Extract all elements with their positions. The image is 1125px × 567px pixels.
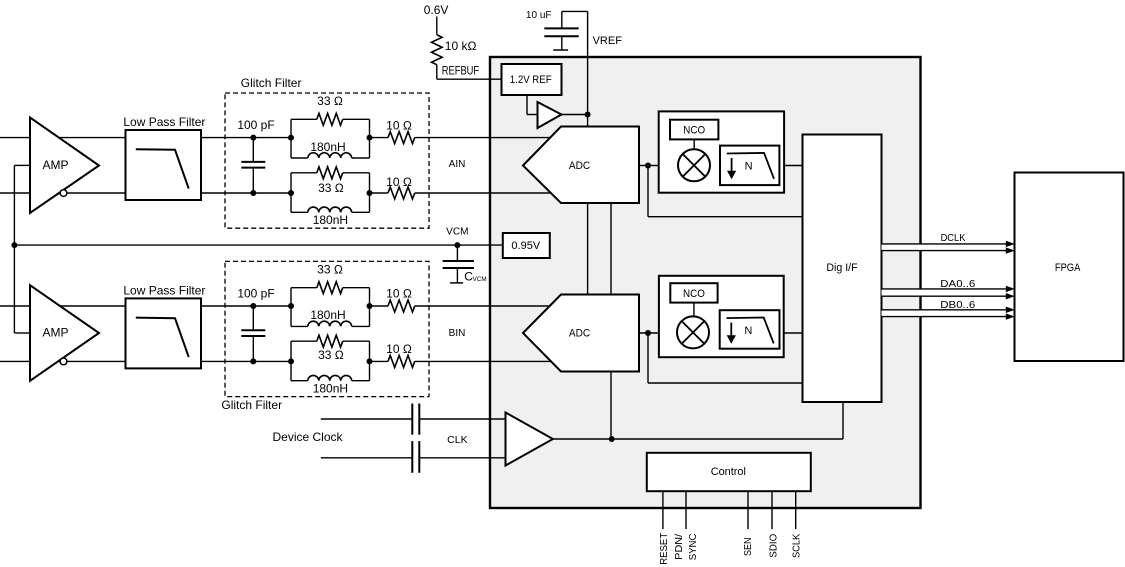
wire NCO to mixer (channel A) — [693, 139, 695, 149]
svg-text:RESET: RESET — [659, 533, 670, 565]
clock buffer — [506, 413, 553, 466]
wire VREF top — [562, 11, 588, 126]
wire DDC B to Dig I/F — [784, 332, 803, 334]
svg-text:33 Ω: 33 Ω — [318, 348, 344, 362]
svg-text:180nH: 180nH — [310, 308, 345, 322]
junction RL B plus right — [367, 303, 373, 309]
inversion bubble on AMP A output — [60, 190, 67, 197]
junction ADC A output — [645, 163, 651, 169]
svg-text:10 kΩ: 10 kΩ — [445, 39, 477, 53]
resistor 33 Ohm (channel A plus) — [317, 94, 343, 125]
wire clock riser to ADC B — [610, 372, 612, 440]
svg-text:180nH: 180nH — [313, 213, 348, 227]
svg-text:VCM: VCM — [473, 276, 487, 283]
inductor 180nH (channel B minus) — [308, 375, 352, 395]
wire clock riser to ADC A — [610, 203, 612, 295]
svg-text:1.2V REF: 1.2V REF — [510, 74, 552, 86]
svg-text:NCO: NCO — [683, 125, 705, 137]
svg-text:100 pF: 100 pF — [237, 118, 274, 132]
svg-text:0.95V: 0.95V — [511, 240, 540, 252]
RL network loop (channel B minus) — [291, 341, 370, 381]
svg-text:AMP: AMP — [42, 158, 68, 172]
svg-text:100 pF: 100 pF — [237, 286, 274, 300]
resistor 10 Ohm (channel B minus) — [386, 342, 415, 367]
svg-text:10 Ω: 10 Ω — [386, 119, 412, 133]
NCO box (channel A) — [670, 120, 718, 140]
DDC block (channel B) — [659, 276, 784, 357]
bus DB0..6 to FPGA — [882, 299, 1015, 320]
wire clock buffer output — [553, 402, 843, 439]
svg-text:Dig I/F: Dig I/F — [826, 262, 857, 274]
capacitor Cvcm — [443, 245, 487, 284]
NCO box (channel B) — [670, 283, 717, 302]
resistor 33 Ohm (channel B plus) — [317, 263, 343, 294]
svg-text:0.6V: 0.6V — [424, 3, 449, 17]
bus DA0..6 to FPGA — [882, 278, 1015, 300]
wire ADC A to Dig I/F direct — [648, 166, 803, 217]
svg-text:BIN: BIN — [449, 328, 466, 339]
glitch filter dashed boundary (channel B) — [225, 261, 429, 396]
junction RL A minus left — [288, 190, 294, 196]
capacitor 100 pF (channel B) — [237, 286, 274, 361]
buffer amp for VREF — [538, 102, 562, 128]
svg-text:VCM: VCM — [446, 226, 468, 237]
svg-text:ADC: ADC — [569, 160, 590, 172]
wire buffer to VREF node — [562, 114, 588, 116]
block Control — [647, 453, 811, 491]
capacitor 100 pF (channel A) — [237, 118, 274, 193]
svg-text:Glitch Filter: Glitch Filter — [221, 398, 282, 412]
wire LPF B to glitch filter — [201, 306, 291, 361]
junction VREF node — [585, 112, 591, 118]
junction 100pF B bottom — [250, 358, 256, 364]
wire 1.2V REF to buffer — [527, 95, 538, 115]
wire VCM net — [14, 165, 502, 333]
control pin SDIO — [771, 491, 773, 529]
resistor 33 Ohm (channel A minus) — [317, 167, 344, 195]
junction RL A minus right — [367, 190, 373, 196]
svg-text:SEN: SEN — [743, 538, 754, 557]
junction RL A plus right — [367, 135, 373, 141]
svg-text:REFBUF: REFBUF — [442, 64, 479, 78]
svg-text:10 uF: 10 uF — [526, 10, 552, 21]
wire ADC B to Dig I/F direct — [648, 333, 803, 383]
wire to ADC BINM — [415, 360, 552, 362]
svg-text:180nH: 180nH — [310, 140, 345, 154]
junction VCM at Cvcm — [454, 242, 460, 248]
mixer (channel A) — [678, 149, 710, 181]
svg-text:PDN/: PDN/ — [674, 534, 685, 560]
svg-text:N: N — [745, 161, 753, 173]
wire to ADC BINP — [415, 305, 552, 307]
wire clock minus to buffer — [419, 457, 510, 459]
svg-text:10 Ω: 10 Ω — [386, 342, 412, 356]
coupling capacitor clock plus — [412, 404, 419, 435]
inversion bubble on AMP B output — [60, 358, 67, 365]
op-amp AMP (channel B) — [30, 285, 99, 381]
pin label PDN/SYNC — [674, 534, 699, 561]
control pin RESET — [662, 491, 664, 529]
wire BINP amp input/output to LPF — [0, 306, 126, 361]
svg-text:AIN: AIN — [449, 159, 466, 170]
wire RL B minus to series resistor — [370, 360, 389, 362]
resistor 10 Ohm (channel A plus) — [386, 119, 415, 144]
wire RL A plus to series resistor — [370, 137, 389, 139]
block 1.2V REF — [502, 64, 562, 95]
svg-text:Low Pass Filter: Low Pass Filter — [123, 115, 205, 129]
svg-text:SCLK: SCLK — [792, 533, 803, 558]
RL network loop (channel A minus) — [291, 173, 370, 213]
wire 0.6V to resistor — [436, 17, 438, 35]
resistor 33 Ohm (channel B minus) — [317, 335, 344, 362]
ADC converter (channel A) — [523, 127, 639, 204]
junction ADC B output — [645, 330, 651, 336]
control pin PDN/SYNC — [685, 491, 687, 529]
inductor 180nH (channel A minus) — [308, 207, 352, 227]
resistor 10 kOhm — [431, 35, 476, 65]
svg-text:10 Ω: 10 Ω — [386, 287, 412, 301]
wire AINP amp input/output to LPF — [0, 138, 126, 193]
svg-text:Low Pass Filter: Low Pass Filter — [123, 284, 205, 298]
glitch filter dashed boundary (channel A) — [225, 93, 429, 228]
wire clock plus to buffer — [419, 418, 510, 420]
wire ADC B output — [639, 332, 659, 334]
svg-text:DB0..6: DB0..6 — [940, 299, 975, 311]
junction RL A plus left — [288, 135, 294, 141]
svg-text:NCO: NCO — [683, 288, 705, 300]
DDC block (channel A) — [659, 111, 784, 192]
wire device clock plus — [321, 418, 413, 420]
junction 100pF top — [250, 135, 256, 141]
inductor 180nH (channel B plus) — [308, 308, 352, 327]
RL network loop (channel A plus) — [291, 119, 370, 158]
block FPGA — [1015, 173, 1124, 362]
wire DDC A to Dig I/F — [784, 165, 802, 167]
wire ADC A output — [639, 165, 659, 167]
svg-text:10 Ω: 10 Ω — [386, 175, 412, 189]
mixer (channel B) — [677, 316, 709, 348]
svg-text:Glitch Filter: Glitch Filter — [241, 76, 302, 90]
junction VCM at amp feed — [11, 242, 17, 248]
coupling capacitor clock minus — [412, 441, 419, 473]
svg-text:SYNC: SYNC — [688, 534, 699, 561]
low pass filter block (channel B) — [123, 284, 205, 369]
control pin SCLK — [795, 491, 797, 529]
svg-text:VREF: VREF — [593, 35, 623, 47]
svg-text:SDIO: SDIO — [768, 534, 779, 558]
RL network loop (channel B plus) — [291, 288, 370, 327]
svg-text:AMP: AMP — [42, 325, 68, 339]
ADC chip body — [490, 57, 921, 508]
junction RL B plus left — [288, 303, 294, 309]
decimation filter (channel A) — [720, 146, 779, 186]
wire device clock minus — [321, 457, 413, 459]
junction clock distribution — [609, 436, 615, 442]
resistor 10 Ohm (channel A minus) — [386, 175, 415, 199]
wire to ADC AINM — [415, 192, 552, 194]
svg-text:CLK: CLK — [447, 434, 467, 446]
wire RL B plus to series resistor — [370, 305, 389, 307]
junction RL B minus left — [288, 358, 294, 364]
decimation filter (channel B) — [720, 310, 780, 349]
capacitor 10 uF — [526, 10, 579, 50]
wire to ADC AINP — [415, 137, 552, 139]
bus DCLK to FPGA — [882, 232, 1015, 254]
svg-text:N: N — [744, 325, 752, 337]
wire RL A minus to series resistor — [370, 192, 389, 194]
svg-text:33 Ω: 33 Ω — [317, 94, 343, 108]
svg-text:180nH: 180nH — [313, 382, 348, 396]
wire REFBUF to chip — [437, 65, 502, 80]
svg-text:DA0..6: DA0..6 — [940, 278, 975, 290]
op-amp AMP (channel A) — [30, 118, 99, 214]
wire NCO to mixer (channel B) — [693, 303, 695, 317]
block 0.95V — [503, 233, 550, 258]
junction 100pF bottom — [250, 190, 256, 196]
svg-text:ADC: ADC — [569, 327, 590, 339]
wire VREF between ADCs — [587, 203, 589, 295]
resistor 10 Ohm (channel B plus) — [386, 287, 415, 313]
svg-text:33 Ω: 33 Ω — [318, 181, 344, 195]
wire LPF A to glitch filter — [201, 138, 291, 193]
svg-text:FPGA: FPGA — [1055, 262, 1081, 274]
junction RL B minus right — [367, 358, 373, 364]
svg-text:Device Clock: Device Clock — [272, 430, 343, 444]
svg-text:DCLK: DCLK — [941, 232, 966, 244]
svg-text:Control: Control — [711, 466, 746, 478]
inductor 180nH (channel A plus) — [308, 140, 352, 158]
low pass filter block (channel A) — [123, 115, 205, 200]
svg-text:33 Ω: 33 Ω — [317, 263, 343, 277]
junction 100pF B top — [250, 303, 256, 309]
ADC converter (channel B) — [523, 295, 639, 372]
block Dig I/F — [803, 135, 882, 403]
control pin SEN — [747, 491, 749, 529]
